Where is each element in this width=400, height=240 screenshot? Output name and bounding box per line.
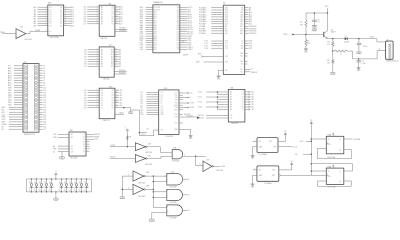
svg-text:Q5: Q5 (60, 19, 62, 21)
svg-text:D7: D7 (84, 66, 86, 68)
svg-text:D2: D2 (34, 182, 36, 184)
vcc flip-flop trunk (310, 122, 312, 125)
svg-text:4.7: 4.7 (251, 68, 253, 70)
svg-text:10: 10 (45, 25, 47, 27)
svg-text:Y2: Y2 (83, 137, 85, 139)
svg-text:U3F: U3F (146, 185, 149, 187)
svg-text:5: 5 (97, 13, 98, 15)
svg-text:B2: B2 (71, 149, 73, 151)
ground C7 (312, 29, 317, 31)
svg-text:D1: D1 (50, 9, 52, 11)
svg-text:5: 5 (97, 56, 98, 58)
svg-text:74LVC08D: 74LVC08D (172, 160, 180, 162)
svg-text:2: 2 (97, 6, 98, 8)
svg-text:7: 7 (97, 60, 98, 62)
wire U3F output (145, 189, 154, 190)
wire emitter line (328, 38, 377, 39)
svg-text:P16: P16 (300, 141, 303, 143)
svg-text:LA2: LA2 (140, 48, 143, 51)
svg-text:5V: 5V (29, 190, 31, 192)
svg-text:D8: D8 (50, 25, 52, 27)
resistor R4 (305, 35, 311, 49)
svg-text:AD8: AD8 (70, 24, 74, 27)
svg-text:T0: T0 (241, 41, 243, 43)
vcc X2 (291, 163, 293, 166)
svg-text:GND: GND (60, 158, 63, 160)
svg-text:GND: GND (331, 73, 334, 75)
svg-text:C1+: C1+ (161, 92, 164, 94)
svg-text:5V: 5V (34, 190, 36, 192)
svg-text:Q8: Q8 (60, 25, 62, 27)
svg-text:RS-232C: RS-232C (187, 115, 195, 117)
svg-text:V5: V5 (291, 161, 293, 163)
wire U3D output bus (145, 176, 167, 177)
wire U7 control pins (114, 70, 126, 75)
ground R6 (331, 72, 336, 74)
svg-text:B1: B1 (112, 9, 114, 11)
svg-text:DS14C335: DS14C335 (166, 136, 174, 138)
vcc X1 (284, 133, 286, 136)
svg-text:Q6: Q6 (111, 105, 113, 107)
svg-text:Y3: Y3 (242, 99, 244, 101)
svg-text:RST: RST (225, 56, 228, 58)
svg-text:INT1: INT1 (240, 33, 244, 35)
svg-text:5V: 5V (74, 190, 76, 192)
svg-text:114: 114 (177, 16, 180, 18)
svg-text:D2: D2 (49, 182, 51, 184)
svg-text:CS8900-CQ: CS8900-CQ (153, 2, 163, 4)
svg-text:B3: B3 (111, 57, 113, 59)
ground diode array (54, 191, 59, 201)
IC U7 74HC245 (84, 45, 121, 80)
oscillator X1 (253, 138, 278, 157)
svg-text:B7: B7 (112, 24, 114, 26)
svg-text:Y6: Y6 (83, 146, 85, 148)
svg-text:5V: 5V (59, 190, 61, 192)
svg-text:74LVC04D: 74LVC04D (145, 152, 153, 154)
wire U8 OE (115, 113, 124, 115)
svg-text:74LVC04D: 74LVC04D (145, 164, 153, 166)
svg-text:Y7: Y7 (83, 149, 85, 151)
svg-text:18: 18 (116, 91, 118, 93)
IC U2 W78E516B (199, 3, 257, 75)
svg-text:Q1: Q1 (111, 92, 113, 94)
svg-text:15: 15 (64, 15, 66, 17)
vcc stub U9B preset (332, 165, 334, 168)
svg-text:4: 4 (167, 190, 168, 192)
inverter U3A (16, 27, 33, 41)
svg-text:104: 104 (177, 38, 180, 40)
svg-text:P17: P17 (295, 154, 298, 156)
svg-text:U13: U13 (48, 3, 51, 5)
svg-text:100: 100 (327, 62, 330, 64)
svg-text:Q2: Q2 (111, 95, 113, 97)
svg-text:Q1: Q1 (60, 9, 62, 11)
svg-text:U2: U2 (223, 3, 225, 5)
wire U2 XTAL2 (245, 71, 258, 74)
IC U8 74HC573 (84, 86, 122, 121)
wire RXD0 input (0, 32, 16, 34)
svg-text:TXD0: TXD0 (283, 34, 288, 36)
svg-text:BS2: BS2 (154, 49, 157, 51)
svg-text:VSS: VSS (240, 61, 243, 63)
svg-text:17: 17 (115, 51, 117, 53)
svg-text:B0: B0 (112, 7, 114, 9)
svg-text:D0: D0 (50, 7, 52, 9)
svg-text:D6: D6 (50, 21, 52, 23)
inductor L1 (334, 50, 353, 59)
ground inverter inputs (120, 196, 125, 198)
svg-text:5V: 5V (64, 190, 66, 192)
svg-text:CLK24M: CLK24M (353, 139, 360, 141)
svg-text:Y2: Y2 (242, 97, 244, 99)
svg-text:RTS: RTS (174, 109, 177, 111)
svg-text:B6: B6 (111, 64, 113, 66)
svg-text:P23/A11: P23/A11 (199, 32, 206, 35)
wire U4D output (183, 210, 190, 212)
svg-text:B1: B1 (111, 52, 113, 54)
svg-text:11: 11 (128, 188, 130, 190)
svg-text:18: 18 (64, 8, 66, 10)
svg-text:P13: P13 (225, 48, 228, 50)
node V10 supply (325, 6, 328, 13)
svg-text:R2: R2 (300, 22, 302, 24)
wires U10 RS232 outputs (179, 92, 195, 110)
svg-text:5V: 5V (44, 190, 46, 192)
svg-text:D2: D2 (84, 182, 86, 184)
wire U8 latch enable net (115, 107, 131, 112)
svg-text:4: 4 (97, 94, 98, 96)
wire X1 VCC (278, 136, 285, 141)
svg-text:101: 101 (177, 45, 180, 47)
svg-text:V5: V5 (284, 131, 286, 133)
svg-text:Q3: Q3 (60, 14, 62, 16)
svg-text:XTAL2: XTAL2 (187, 48, 192, 51)
svg-text:GND: GND (129, 112, 132, 114)
node TXD0 input (283, 34, 324, 37)
diode D2 (344, 36, 349, 44)
wire U9B feedback loop (318, 181, 352, 186)
svg-text:G2: G2 (230, 118, 232, 120)
svg-text:17: 17 (116, 94, 118, 96)
svg-text:BS1: BS1 (154, 47, 157, 49)
svg-text:102: 102 (177, 42, 180, 44)
svg-text:74HC573: 74HC573 (103, 120, 110, 122)
svg-text:Y4: Y4 (83, 141, 85, 143)
svg-text:RXTXD0: RXTXD0 (154, 7, 160, 9)
svg-text:Q3: Q3 (111, 97, 113, 99)
svg-text:RXTXD1: RXTXD1 (154, 9, 160, 11)
svg-text:D7: D7 (50, 23, 52, 25)
svg-text:P12: P12 (225, 46, 228, 48)
svg-text:PU3: PU3 (20, 27, 23, 29)
svg-text:Y1: Y1 (242, 94, 244, 96)
wire U4B output (183, 179, 190, 181)
svg-text:8: 8 (97, 104, 98, 106)
svg-text:5V: 5V (69, 190, 71, 192)
svg-text:L27: L27 (43, 129, 46, 131)
inverter U3D (133, 171, 150, 185)
svg-text:P-CLK: P-CLK (292, 146, 298, 148)
svg-text:9: 9 (97, 106, 98, 108)
svg-text:17: 17 (64, 11, 66, 13)
svg-text:B5: B5 (112, 19, 114, 21)
svg-text:T1: T1 (241, 43, 243, 45)
diode D9 (64, 179, 68, 193)
svg-text:13: 13 (64, 20, 66, 22)
diode D13 (84, 179, 88, 193)
svg-text:11: 11 (199, 164, 201, 166)
svg-text:17: 17 (116, 8, 118, 10)
ground U2 EA pin (217, 70, 224, 80)
svg-text:4: 4 (97, 53, 98, 55)
svg-text:111: 111 (177, 23, 180, 25)
svg-text:OE/U8: OE/U8 (119, 113, 124, 115)
svg-text:D2: D2 (44, 182, 46, 184)
svg-text:6: 6 (97, 15, 98, 17)
wire U2 XTAL1 (245, 68, 253, 70)
svg-text:110: 110 (177, 25, 180, 27)
inverter U3B (135, 143, 153, 154)
svg-text:C2+: C2+ (161, 97, 164, 99)
IC U1 74HC573 (34, 3, 74, 40)
svg-text:DKWE: DKWE (35, 30, 41, 32)
svg-text:74LVC08D: 74LVC08D (170, 217, 178, 219)
svg-text:CS2: CS2 (94, 139, 97, 141)
AND gate U4B (153, 172, 182, 189)
inverter U3F (133, 184, 149, 198)
svg-text:118: 118 (177, 7, 180, 9)
svg-text:103: 103 (177, 40, 180, 42)
svg-text:9: 9 (167, 206, 168, 208)
svg-text:PD6/WR: PD6/WR (119, 30, 126, 32)
svg-text:Y4: Y4 (242, 102, 244, 104)
svg-text:D2: D2 (79, 182, 81, 184)
svg-text:D3: D3 (50, 14, 52, 16)
svg-text:74LVC08D: 74LVC08D (170, 186, 178, 188)
wire X2 output to U9B (279, 175, 311, 177)
svg-text:RJHSE-5381-08: RJHSE-5381-08 (386, 60, 398, 62)
svg-text:D0: D0 (101, 90, 103, 92)
svg-text:3T-IN: 3T-IN (190, 107, 195, 109)
svg-text:Y0: Y0 (242, 92, 244, 94)
svg-text:PSE: PSE (240, 53, 243, 55)
IC U11 74HC244 (198, 88, 255, 126)
capacitor C9 (356, 59, 365, 68)
svg-text:14: 14 (116, 101, 118, 103)
svg-text:D2: D2 (50, 12, 52, 14)
svg-text:13: 13 (116, 104, 118, 106)
svg-text:D3: D3 (101, 97, 103, 99)
svg-text:12: 12 (116, 20, 118, 22)
svg-text:13: 13 (115, 60, 117, 62)
svg-text:Q7: Q7 (84, 107, 86, 109)
svg-text:Y1: Y1 (83, 134, 85, 136)
IC U5 CS8900 (140, 2, 193, 57)
svg-text:5V: 5V (49, 190, 51, 192)
wire U9A feedback loop (318, 148, 352, 159)
diode D11 (74, 179, 78, 193)
svg-text:16: 16 (116, 11, 118, 13)
svg-text:Y8: Y8 (83, 151, 85, 153)
svg-text:2: 2 (97, 89, 98, 91)
svg-text:GND: GND (357, 52, 360, 54)
svg-text:Q4: Q4 (60, 16, 62, 18)
svg-text:74HC245: 74HC245 (100, 38, 107, 40)
IC U6 74HC245 (84, 3, 123, 39)
svg-text:B5: B5 (111, 61, 113, 63)
svg-text:74HC244: 74HC244 (231, 123, 238, 125)
svg-text:22-4B: 22-4B (221, 166, 225, 168)
svg-text:11: 11 (115, 65, 117, 67)
svg-text:6: 6 (97, 58, 98, 60)
diode D6 (44, 179, 48, 193)
svg-text:+: + (362, 43, 363, 45)
svg-text:INT0: INT0 (240, 31, 244, 33)
wire X2 VCC (279, 166, 292, 170)
svg-text:SD5: SD5 (154, 18, 157, 20)
svg-text:LL4148: LL4148 (344, 42, 349, 44)
svg-text:7: 7 (97, 18, 98, 20)
ground C8 (357, 51, 362, 53)
svg-text:14: 14 (64, 18, 66, 20)
svg-text:5V: 5V (84, 190, 86, 192)
svg-text:U5F: U5F (206, 160, 209, 162)
diode D5 (39, 179, 43, 193)
svg-text:B7: B7 (119, 66, 121, 68)
ground C9 (357, 67, 361, 69)
svg-text:74LVC04D: 74LVC04D (138, 183, 146, 185)
svg-text:V+: V+ (161, 101, 163, 103)
IC U12 GAL16V8 (53, 130, 101, 160)
svg-text:U8: U8 (109, 86, 111, 88)
svg-text:4: 4 (97, 11, 98, 13)
svg-text:D2: D2 (39, 182, 41, 184)
svg-text:D2: D2 (29, 182, 31, 184)
svg-text:19: 19 (116, 89, 118, 91)
svg-text:L1: L1 (340, 54, 342, 56)
wire vertical bus (153, 176, 154, 207)
svg-text:1: 1 (167, 174, 168, 176)
svg-text:P13: P13 (205, 48, 208, 50)
svg-text:3: 3 (97, 91, 98, 93)
AND gate U4A (169, 147, 183, 163)
wire buffer output DKWE (26, 30, 48, 34)
wire U9B clock input (311, 174, 326, 176)
svg-text:PE-65: PE-65 (370, 37, 375, 39)
svg-text:SD4: SD4 (154, 16, 157, 18)
svg-text:Y5: Y5 (242, 104, 244, 106)
svg-text:115: 115 (177, 14, 180, 16)
svg-text:A8: A8 (34, 24, 36, 27)
svg-text:18: 18 (116, 6, 118, 8)
svg-text:CTL0: CTL0 (198, 92, 202, 94)
svg-text:8: 8 (97, 63, 98, 65)
svg-text:JP1: JP1 (23, 62, 26, 64)
svg-text:CTL3: CTL3 (198, 107, 202, 109)
AND gate U4D (152, 205, 183, 220)
AND gate U4C (153, 189, 182, 204)
svg-text:F-ON: F-ON (190, 103, 195, 105)
svg-text:C10+: C10+ (140, 114, 144, 116)
svg-text:12: 12 (116, 106, 118, 108)
svg-text:C6: C6 (317, 20, 319, 22)
node arrow above TX232 (125, 127, 132, 147)
svg-text:GND: GND (121, 197, 124, 199)
svg-text:R8: R8 (129, 137, 131, 139)
svg-text:CTL2: CTL2 (198, 102, 202, 104)
wire U5F output (213, 166, 224, 168)
svg-text:SD7: SD7 (154, 23, 157, 25)
diode D10 (69, 179, 73, 193)
svg-text:100: 100 (177, 47, 180, 49)
inverter U3C (135, 155, 153, 166)
svg-text:12: 12 (64, 22, 66, 24)
svg-text:P10: P10 (225, 41, 228, 43)
svg-text:Q6: Q6 (60, 21, 62, 23)
svg-text:D2: D2 (64, 182, 66, 184)
wire U3C out to gate U4A (147, 156, 169, 158)
svg-text:V5: V5 (310, 120, 312, 122)
svg-text:R4: R4 (307, 40, 309, 42)
vcc stub U9A preset (332, 133, 334, 136)
svg-text:PD2/G2: PD2/G2 (198, 118, 204, 120)
svg-text:8: 8 (97, 20, 98, 22)
svg-text:D6: D6 (101, 105, 103, 107)
wire U9B clock from trunk (311, 164, 352, 171)
ground X2 (251, 183, 255, 185)
wire RS232 TXD with arrow (179, 115, 200, 119)
ground U10 (179, 130, 193, 141)
svg-text:U11: U11 (230, 88, 233, 90)
svg-text:9: 9 (97, 23, 98, 25)
svg-text:Y7: Y7 (242, 109, 244, 111)
svg-text:SD6: SD6 (154, 20, 157, 22)
svg-text:C9: C9 (362, 61, 364, 63)
svg-text:5: 5 (97, 96, 98, 98)
svg-text:B7: B7 (111, 66, 113, 68)
node RST arrow into U2 (198, 54, 223, 58)
svg-text:R6: R6 (327, 60, 329, 62)
svg-text:16: 16 (116, 96, 118, 98)
svg-text:B2: B2 (112, 12, 114, 14)
wires JP1 right (39, 66, 46, 131)
svg-text:B3: B3 (112, 14, 114, 16)
svg-text:B0: B0 (111, 49, 113, 51)
wire U3B out to gate U4A (147, 147, 169, 153)
svg-text:DB6: DB6 (8, 105, 12, 107)
svg-text:18: 18 (115, 48, 117, 50)
svg-text:A0: A0 (53, 145, 55, 148)
svg-text:P11: P11 (225, 43, 228, 45)
connector J2 RJ45 (386, 39, 398, 62)
svg-text:19: 19 (64, 6, 66, 8)
svg-text:6: 6 (97, 99, 98, 101)
transistor Q1 (324, 13, 336, 39)
wire RS232 RXD (179, 114, 190, 116)
svg-text:74LVC08D: 74LVC08D (170, 202, 178, 204)
svg-text:7: 7 (97, 101, 98, 103)
svg-text:3: 3 (97, 51, 98, 53)
svg-text:B4: B4 (111, 59, 113, 61)
svg-text:D2: D2 (59, 182, 61, 184)
svg-text:Y3: Y3 (83, 139, 85, 141)
svg-text:74LVC04D: 74LVC04D (138, 196, 146, 198)
resistor R6 (327, 51, 334, 72)
svg-text:D5: D5 (50, 19, 52, 21)
svg-text:/D6: /D6 (119, 105, 122, 107)
diode D4 (34, 179, 38, 193)
